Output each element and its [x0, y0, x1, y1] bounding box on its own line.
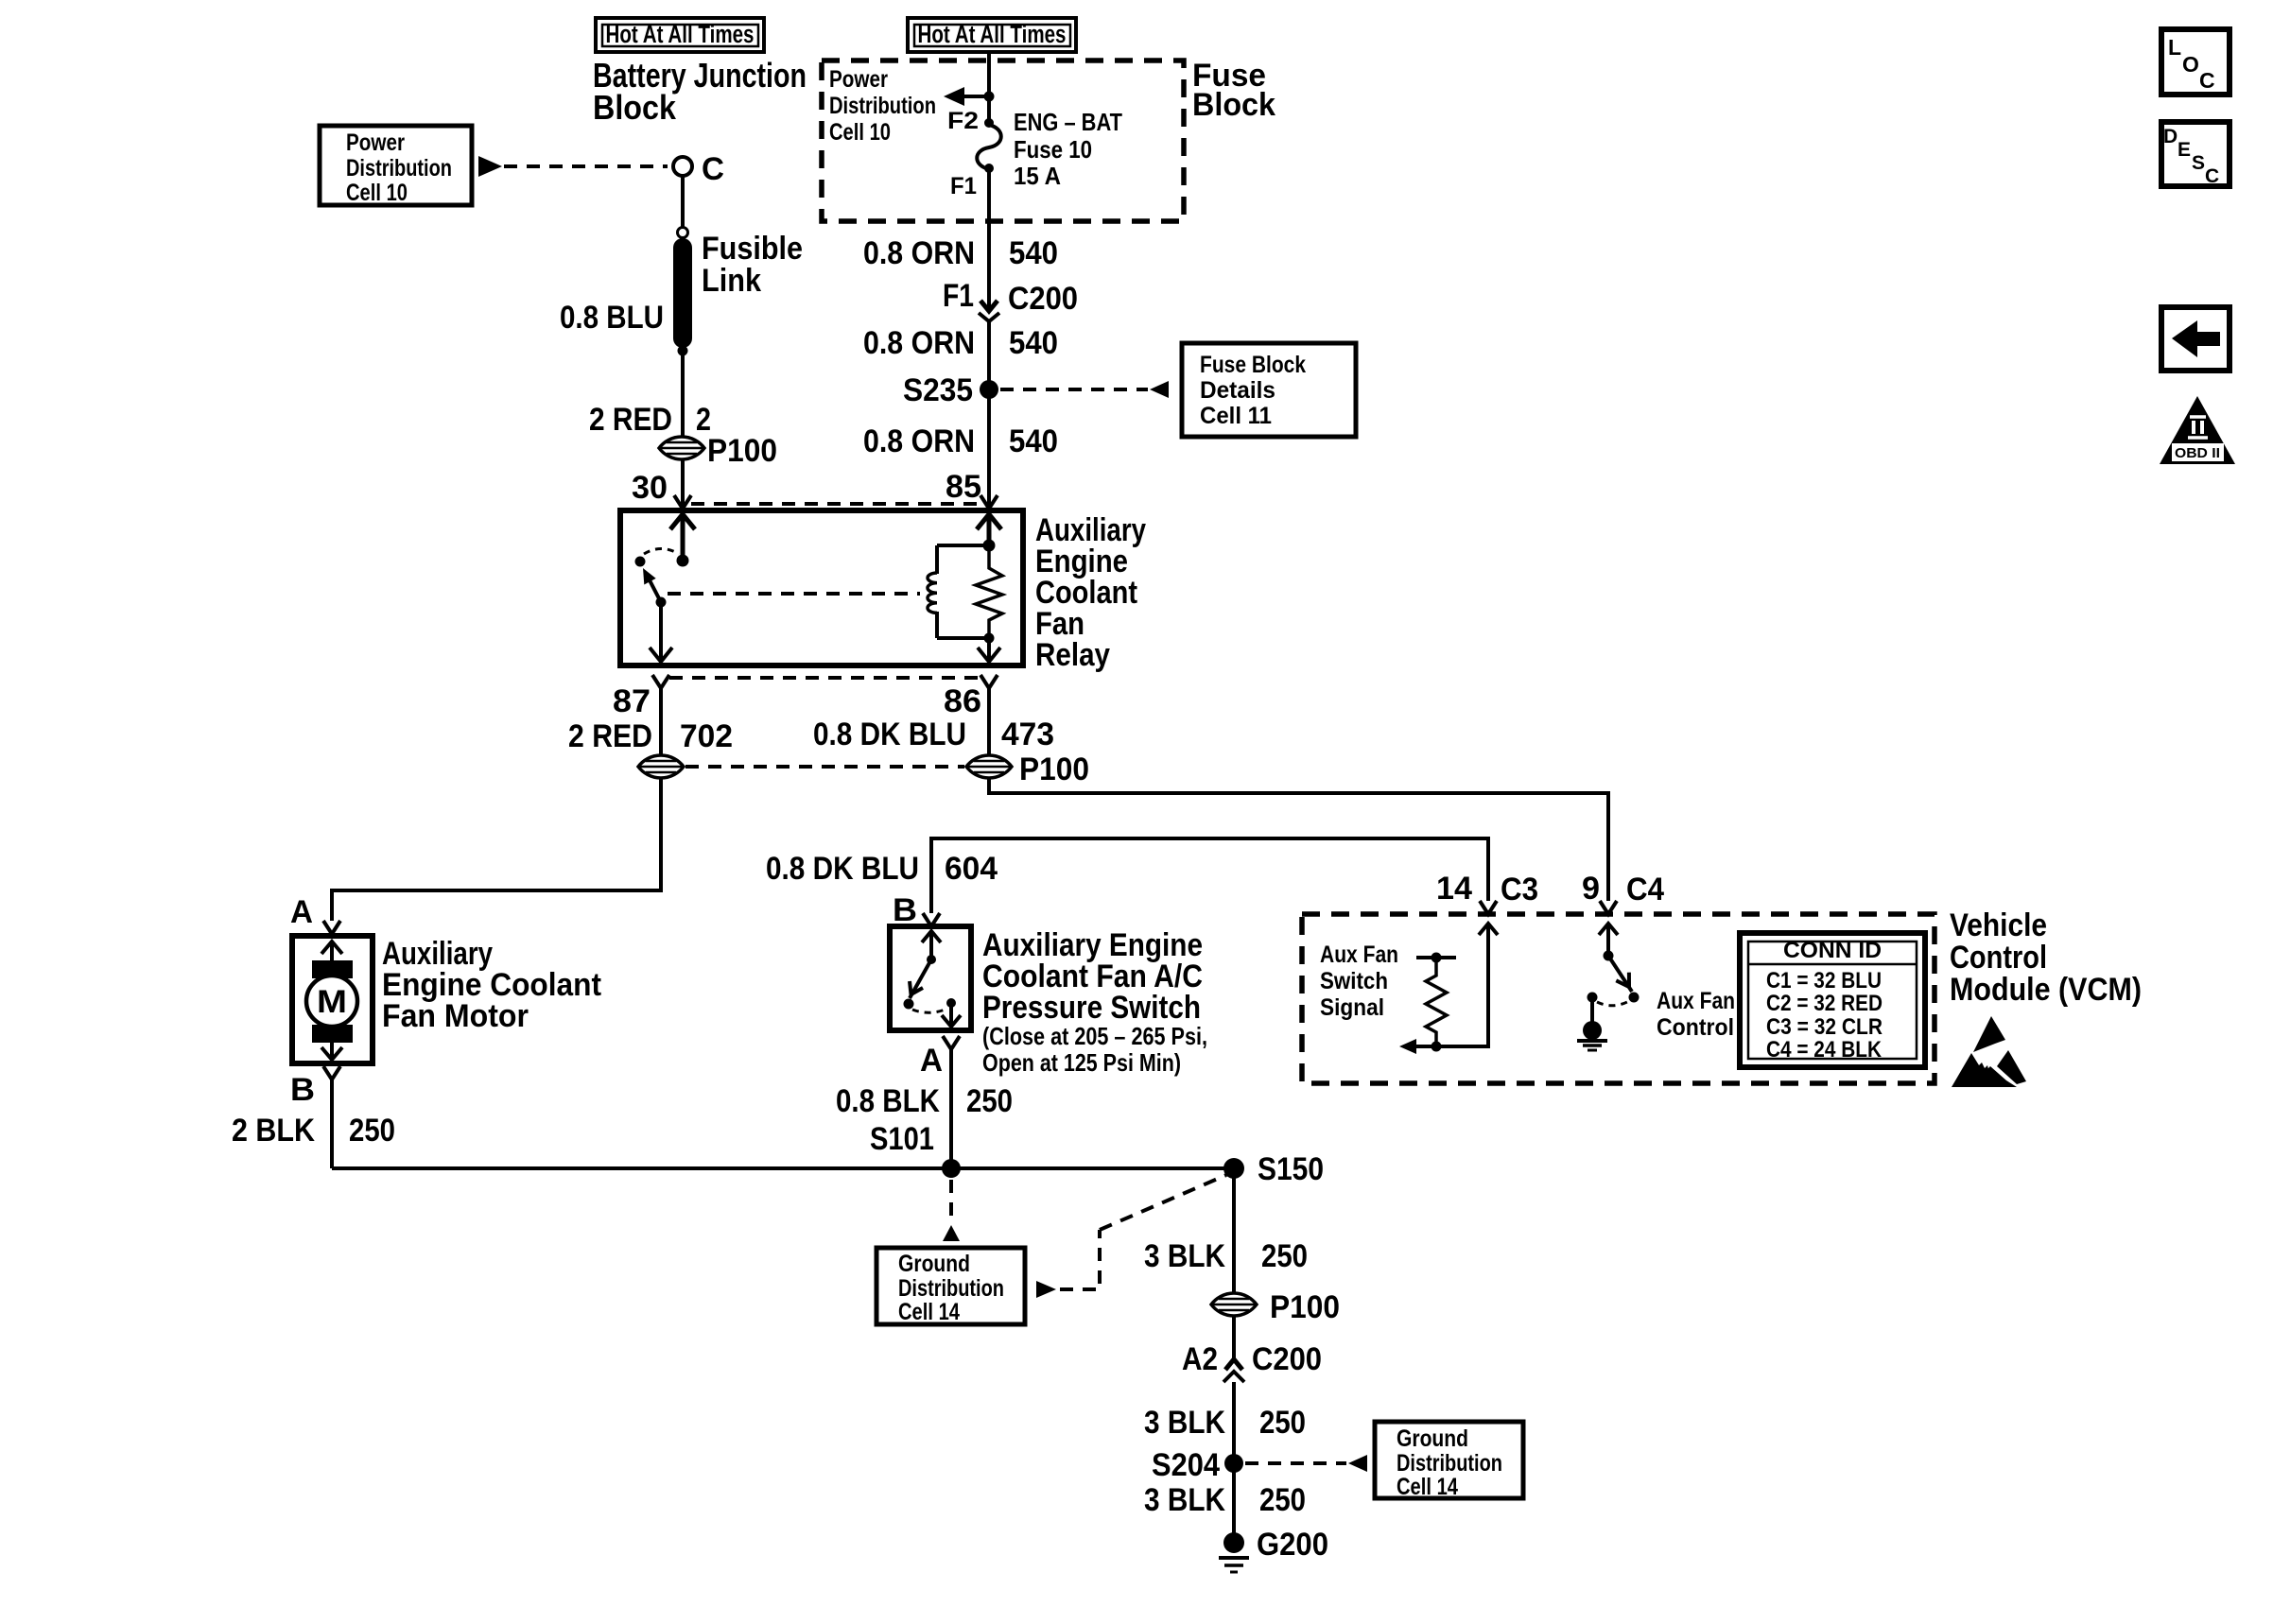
svg-text:A: A	[290, 894, 313, 930]
svg-text:0.8 DK BLU: 0.8 DK BLU	[766, 851, 919, 887]
dashed reference from S204	[1245, 1455, 1367, 1472]
svg-text:A2: A2	[1182, 1341, 1218, 1377]
motor brush block top	[312, 960, 353, 978]
dashed connector face below relay	[669, 676, 980, 680]
hot-at-all-times label box 2	[908, 18, 1076, 52]
svg-text:Fusible: Fusible	[702, 231, 803, 267]
svg-text:C3 = 32 CLR: C3 = 32 CLR	[1766, 1014, 1883, 1040]
vcm pull-up resistor (aux fan switch signal)	[1416, 953, 1456, 1047]
svg-text:O: O	[2182, 52, 2199, 77]
terminal switch A	[920, 1036, 960, 1079]
relay contact to pin 87	[650, 602, 672, 662]
relay coil to pin 86 arrow	[978, 633, 1000, 663]
terminal motor B	[290, 1066, 340, 1108]
svg-text:702: 702	[680, 718, 733, 754]
relay switch common pivot	[635, 557, 646, 567]
svg-text:C200: C200	[1008, 281, 1078, 317]
terminal C (battery junction block stud)	[673, 157, 692, 176]
svg-text:Hot At All Times: Hot At All Times	[606, 22, 755, 48]
label Power Distribution Cell 10 (in fuse block)	[829, 66, 936, 146]
switch label Auxiliary Engine Coolant Fan A/C Pressure Switch	[982, 927, 1207, 1077]
relay switch blade	[643, 568, 667, 608]
svg-text:Fan Motor: Fan Motor	[382, 998, 529, 1034]
svg-text:Power: Power	[346, 130, 405, 156]
relay pin 85 internal arrow	[977, 514, 1001, 552]
svg-text:C200: C200	[1252, 1341, 1322, 1377]
svg-text:0.8 ORN: 0.8 ORN	[863, 423, 975, 459]
svg-text:M: M	[317, 984, 347, 1020]
terminal pin 87	[613, 675, 669, 719]
label Fuse Block	[1192, 58, 1275, 123]
svg-text:P100: P100	[707, 433, 777, 469]
svg-text:Distribution: Distribution	[898, 1275, 1004, 1302]
svg-text:Details: Details	[1200, 377, 1275, 404]
splice S150	[1223, 1151, 1324, 1187]
svg-text:F1: F1	[943, 278, 974, 314]
wire P100 to C200	[1232, 1317, 1236, 1361]
reference box Power Distribution Cell 10	[320, 126, 472, 206]
svg-text:CONN ID: CONN ID	[1783, 938, 1882, 963]
splice S101	[870, 1121, 961, 1178]
svg-text:Relay: Relay	[1035, 637, 1110, 673]
svg-text:P100: P100	[1270, 1289, 1340, 1325]
switch internal input arrow	[922, 931, 941, 964]
svg-text:0.8 ORN: 0.8 ORN	[863, 235, 975, 271]
svg-text:86: 86	[944, 683, 981, 719]
svg-text:604: 604	[945, 851, 998, 887]
svg-text:30: 30	[632, 470, 668, 506]
svg-text:ENG – BAT: ENG – BAT	[1014, 108, 1122, 136]
wire switch A to S101	[949, 1049, 953, 1168]
svg-text:C4 = 24 BLK: C4 = 24 BLK	[1766, 1037, 1883, 1063]
ground bus wire to S150	[332, 1166, 1234, 1170]
wire pin 87 to P100	[659, 688, 663, 754]
svg-text:Pressure Switch: Pressure Switch	[982, 990, 1201, 1026]
vcm C4 internal arrow	[1599, 924, 1618, 961]
svg-text:G200: G200	[1257, 1527, 1328, 1563]
terminal pin 86	[944, 675, 998, 719]
svg-text:0.8 DK BLU: 0.8 DK BLU	[813, 717, 966, 752]
arrow from Power Distribution box	[478, 156, 502, 177]
fuse block dashed outline	[822, 60, 1184, 221]
svg-text:3 BLK: 3 BLK	[1144, 1238, 1225, 1274]
svg-text:(Close at 205 – 265 Psi,: (Close at 205 – 265 Psi,	[982, 1022, 1207, 1050]
dashed connector face above relay	[691, 502, 980, 506]
fusible link	[673, 228, 803, 356]
svg-text:A: A	[920, 1043, 943, 1079]
terminal pin 85	[980, 495, 998, 509]
relay coil resistor	[976, 545, 1002, 638]
svg-text:Power: Power	[829, 66, 888, 93]
icon DESC button	[2161, 122, 2230, 187]
svg-text:Switch: Switch	[1320, 968, 1388, 994]
svg-text:Link: Link	[702, 263, 761, 299]
vcm switch ground contact	[1583, 993, 1602, 1041]
svg-text:540: 540	[1009, 235, 1058, 271]
svg-text:C: C	[702, 151, 724, 187]
svg-text:S204: S204	[1152, 1447, 1220, 1483]
wire S235 to relay pin 85	[987, 389, 991, 507]
svg-text:E: E	[2178, 139, 2191, 161]
icon LOC button	[2161, 29, 2230, 95]
label Aux Fan Control	[1657, 988, 1735, 1041]
relay pin 30 internal arrow	[670, 514, 695, 567]
svg-text:B: B	[893, 892, 917, 928]
label Vehicle Control Module (VCM)	[1950, 907, 2142, 1008]
svg-text:D: D	[2163, 126, 2178, 147]
svg-text:C: C	[2205, 165, 2219, 187]
wire P100 to relay pin 30	[681, 460, 685, 507]
vcm internal ground symbol	[1577, 1041, 1607, 1050]
svg-text:Signal: Signal	[1320, 994, 1384, 1021]
vcm switch dashed arc	[1597, 1001, 1629, 1006]
wire S204 to G200	[1232, 1463, 1236, 1536]
motor internal arrow down	[321, 1043, 342, 1060]
svg-text:C: C	[2199, 68, 2215, 93]
wire P100 to VCM C4	[989, 779, 1608, 901]
svg-text:S150: S150	[1258, 1151, 1324, 1187]
svg-text:S: S	[2192, 152, 2205, 174]
dashed connector line P100 to P100	[685, 765, 964, 769]
svg-text:0.8 ORN: 0.8 ORN	[863, 325, 975, 361]
svg-text:0.8 BLK: 0.8 BLK	[836, 1083, 940, 1119]
pressure switch box	[890, 926, 971, 1030]
svg-text:P100: P100	[1019, 752, 1089, 787]
svg-text:14: 14	[1436, 871, 1472, 907]
wire C200 to S204	[1232, 1382, 1236, 1463]
svg-text:Cell 11: Cell 11	[1200, 403, 1272, 429]
wire fuse to C200	[987, 168, 991, 310]
svg-text:9: 9	[1582, 871, 1600, 907]
connector P100 (pin 87 wire)	[638, 755, 684, 778]
arrow from Ground Distribution box to S150	[1036, 1175, 1226, 1298]
svg-text:Cell 14: Cell 14	[1397, 1474, 1458, 1500]
connector C200 pin F1	[943, 278, 1078, 321]
svg-text:Cell 10: Cell 10	[346, 180, 408, 206]
connector P100 (battery feed)	[659, 433, 777, 469]
hot-at-all-times label box 1	[596, 18, 764, 52]
terminal C4 pin 9	[1582, 871, 1664, 914]
svg-text:87: 87	[613, 683, 651, 719]
terminal C3 pin 14	[1436, 871, 1538, 914]
relay coil dashed actuator link	[668, 592, 920, 596]
svg-text:Hot At All Times: Hot At All Times	[918, 22, 1067, 48]
svg-text:Control: Control	[1950, 940, 2047, 976]
vcm dashed outline	[1302, 914, 1935, 1083]
svg-text:Ground: Ground	[1397, 1425, 1468, 1452]
terminal switch B	[893, 892, 940, 928]
wire C200 to S235	[987, 321, 991, 389]
switch dashed throw arc	[912, 1009, 947, 1012]
conn id table	[1740, 933, 1925, 1067]
ground G200	[1219, 1527, 1328, 1572]
wire from hot box into fuse block	[987, 54, 991, 122]
svg-text:Fuse 10: Fuse 10	[1014, 135, 1092, 164]
icon back-arrow button	[2161, 307, 2230, 371]
svg-text:250: 250	[1261, 1238, 1308, 1274]
label Battery Junction Block	[593, 56, 807, 127]
svg-text:S101: S101	[870, 1121, 934, 1157]
relay switch dashed throw arc	[644, 549, 679, 555]
svg-text:Open at 125 Psi Min): Open at 125 Psi Min)	[982, 1048, 1181, 1077]
svg-text:Module (VCM): Module (VCM)	[1950, 972, 2142, 1008]
svg-text:Ground: Ground	[898, 1251, 970, 1277]
wire VCM C3 to pressure switch B	[931, 838, 1488, 913]
splice S204	[1152, 1447, 1243, 1483]
svg-text:L: L	[2168, 35, 2181, 60]
svg-text:2 RED: 2 RED	[589, 402, 672, 438]
svg-text:Fuse Block: Fuse Block	[1200, 352, 1306, 378]
motor armature circle M	[306, 976, 357, 1027]
connector P100 (pin 86 wire)	[966, 752, 1089, 787]
dashed reference wire to terminal C	[504, 164, 668, 168]
vcm C3 internal arrow and path	[1399, 924, 1498, 1054]
feed arrow to power distribution	[944, 87, 995, 106]
icon OBD II badge	[2160, 396, 2235, 464]
svg-text:85: 85	[946, 469, 981, 505]
wire P100 to motor A	[332, 779, 661, 921]
svg-text:250: 250	[1259, 1405, 1306, 1441]
reference box Ground Distribution Cell 14 (left)	[876, 1248, 1025, 1325]
relay coil (inductor winding)	[928, 545, 989, 638]
svg-text:OBD II: OBD II	[2175, 445, 2220, 461]
connector P100 (ground wire)	[1211, 1289, 1340, 1325]
svg-text:250: 250	[1259, 1482, 1306, 1518]
svg-text:F1: F1	[950, 173, 977, 199]
switch output contact to A	[942, 998, 961, 1027]
svg-text:C2 = 32 RED: C2 = 32 RED	[1766, 991, 1883, 1016]
dashed reference below S101	[943, 1180, 960, 1241]
connector C200 pin A2	[1182, 1341, 1322, 1382]
fuse ENG-BAT Fuse 10 15A	[947, 108, 1122, 199]
motor brush block bottom	[312, 1025, 353, 1043]
svg-text:3 BLK: 3 BLK	[1144, 1405, 1225, 1441]
svg-text:15 A: 15 A	[1014, 162, 1061, 190]
wire pin 86 to P100	[987, 688, 991, 754]
svg-text:540: 540	[1009, 325, 1058, 361]
svg-text:Distribution: Distribution	[829, 93, 936, 119]
svg-text:Block: Block	[1192, 87, 1275, 123]
motor box Auxiliary Engine Coolant Fan Motor	[292, 936, 373, 1063]
svg-text:C1 = 32 BLU: C1 = 32 BLU	[1766, 968, 1882, 993]
terminal motor A	[290, 894, 340, 934]
svg-text:Cell 10: Cell 10	[829, 119, 891, 146]
svg-text:C4: C4	[1626, 872, 1664, 907]
svg-text:S235: S235	[903, 372, 973, 408]
svg-text:0.8 BLU: 0.8 BLU	[560, 300, 664, 336]
dashed reference from S235	[1000, 388, 1148, 391]
wire S150 to P100	[1232, 1168, 1236, 1292]
reference box Ground Distribution Cell 14 (right)	[1375, 1422, 1523, 1500]
svg-text:2 BLK: 2 BLK	[232, 1113, 315, 1149]
svg-text:3 BLK: 3 BLK	[1144, 1482, 1225, 1518]
svg-text:Cell 14: Cell 14	[898, 1299, 960, 1325]
svg-text:2 RED: 2 RED	[568, 718, 652, 754]
relay box Auxiliary Engine Coolant Fan Relay	[620, 510, 1023, 665]
svg-text:Aux Fan: Aux Fan	[1657, 988, 1735, 1014]
wire from C to fusible link	[681, 176, 685, 228]
wire motor B to ground bus	[330, 1080, 334, 1168]
svg-text:B: B	[290, 1072, 315, 1108]
svg-text:Block: Block	[593, 88, 677, 127]
svg-text:473: 473	[1001, 717, 1054, 752]
svg-text:250: 250	[349, 1113, 395, 1149]
splice S235	[903, 372, 998, 408]
terminal pin 30	[674, 495, 691, 509]
svg-text:C3: C3	[1501, 872, 1538, 907]
svg-text:Control: Control	[1657, 1014, 1734, 1041]
esd sensitivity symbol	[1952, 1016, 2026, 1087]
svg-text:Distribution: Distribution	[346, 155, 452, 181]
reference box Fuse Block Details Cell 11	[1182, 343, 1356, 437]
label Aux Fan Switch Signal	[1320, 942, 1398, 1021]
svg-text:Aux Fan: Aux Fan	[1320, 942, 1398, 968]
vcm driver switch blade (aux fan control)	[1608, 956, 1640, 1003]
svg-text:540: 540	[1009, 423, 1058, 459]
switch blade with arrow	[904, 959, 932, 1010]
svg-text:F2: F2	[947, 108, 979, 134]
svg-text:Vehicle: Vehicle	[1950, 907, 2047, 943]
motor internal arrow up	[321, 942, 342, 962]
svg-text:250: 250	[966, 1083, 1013, 1119]
wire fusible link to P100	[681, 351, 685, 436]
svg-text:Distribution: Distribution	[1397, 1450, 1502, 1477]
